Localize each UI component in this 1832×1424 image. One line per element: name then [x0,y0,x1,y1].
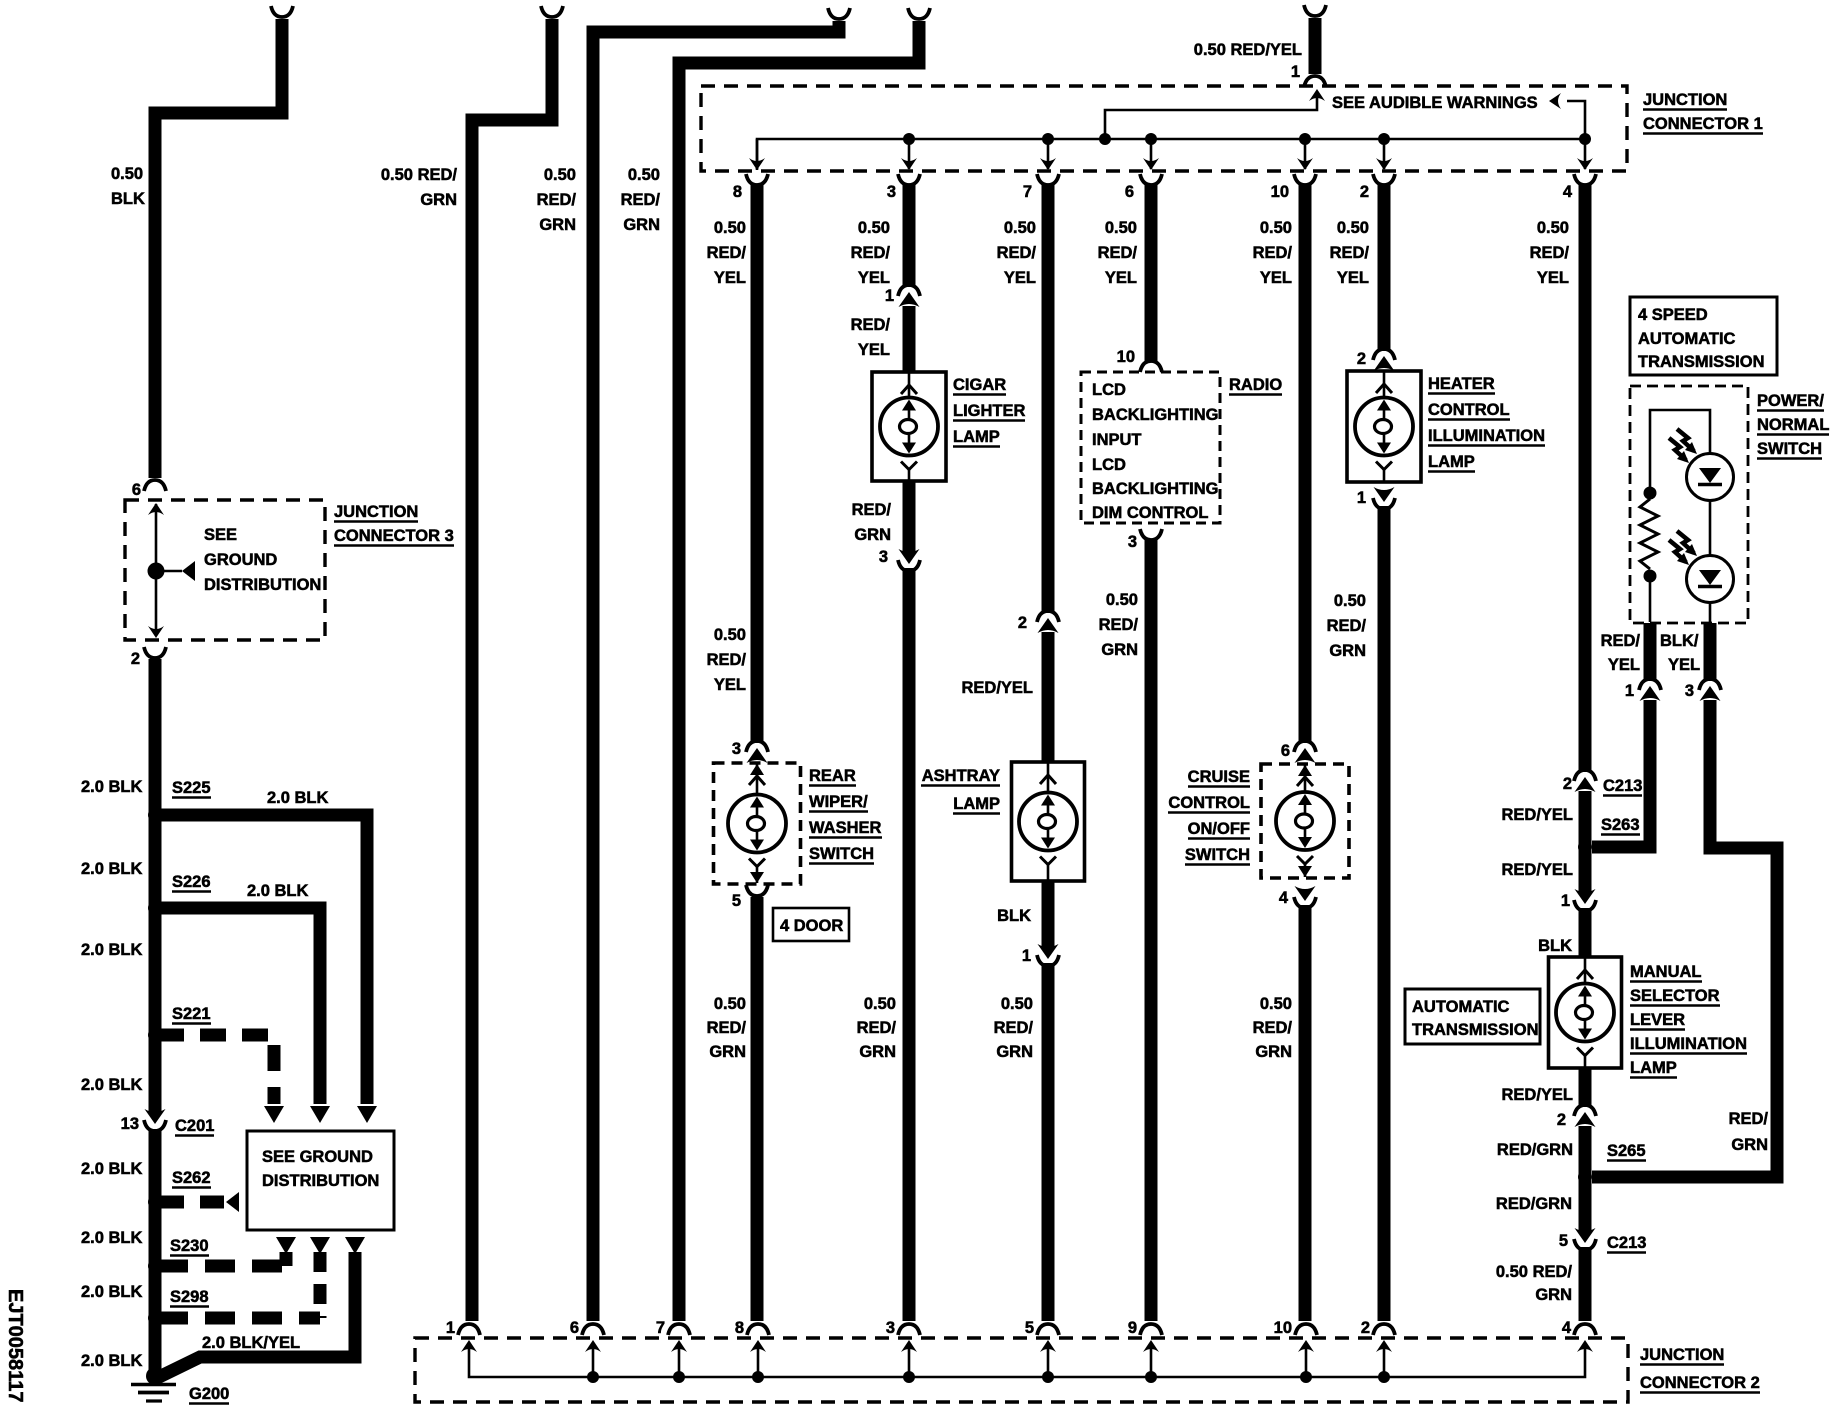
wire W11 upper (JC1 pin 4) [1563,183,1573,201]
junction connector 2 bus [469,1348,1585,1377]
label BLK (W7) [997,907,1031,925]
junction connector 2 pin 10 wire end [1274,1319,1292,1337]
wire W11 lower [1579,1247,1592,1321]
svg-text:3: 3 [1685,682,1694,700]
connector pin 1 power switch [1625,682,1634,700]
svg-text:ILLUMINATION: ILLUMINATION [1428,427,1545,445]
wire W7 lower [1042,963,1055,1321]
svg-text:2.0 BLK: 2.0 BLK [81,860,143,878]
svg-text:3: 3 [887,183,896,201]
label 2.0 BLK (6) [81,1229,143,1247]
svg-text:GRN: GRN [996,1043,1033,1061]
label JUNCTION CONNECTOR 1 [1643,91,1727,110]
svg-text:LAMP: LAMP [953,428,1000,446]
svg-text:YEL: YEL [714,269,746,287]
label BLK (selector) [1538,937,1572,955]
svg-text:RED/: RED/ [851,244,891,262]
svg-text:2.0 BLK: 2.0 BLK [247,882,309,900]
label ASHTRAY LAMP [921,767,1000,786]
svg-text:C201: C201 [175,1117,214,1135]
label LCD BACKLIGHTING INPUT LCD BACKLIGHTING DIM CONTROL [1092,381,1126,399]
svg-text:YEL: YEL [1260,269,1292,287]
svg-text:5: 5 [1559,1232,1568,1250]
wire W11 into selector lamp [1579,908,1592,958]
svg-text:CONTROL: CONTROL [1428,401,1510,419]
svg-text:0.50: 0.50 [864,995,896,1013]
svg-text:YEL: YEL [1608,656,1640,674]
svg-text:0.50: 0.50 [1334,592,1366,610]
svg-text:0.50: 0.50 [628,166,660,184]
cruise control on/off switch [1261,764,1349,878]
label RED/GRN (W6) [852,501,892,519]
label RED/ GRN (BLK/YEL run) [1729,1110,1769,1128]
svg-text:SWITCH: SWITCH [1757,440,1822,458]
svg-text:0.50: 0.50 [1004,219,1036,237]
svg-text:CONNECTOR 3: CONNECTOR 3 [334,527,454,545]
connector pin 4 cruise switch [1279,889,1289,907]
svg-text:DISTRIBUTION: DISTRIBUTION [204,576,321,594]
junction arrow to S298 wire [310,1237,330,1254]
svg-text:RADIO: RADIO [1229,376,1282,394]
label RED/YEL (below S263) [1501,861,1573,879]
svg-text:0.50 RED/: 0.50 RED/ [381,166,458,184]
label 0.50 RED/YEL (W6 top) [858,219,890,237]
svg-text:LAMP: LAMP [1428,453,1475,471]
svg-text:8: 8 [733,183,742,201]
svg-text:GRN: GRN [623,216,660,234]
svg-text:10: 10 [1271,183,1289,201]
svg-text:7: 7 [656,1319,665,1337]
wire W1 main ground wire upper [149,659,162,1112]
svg-text:BLK: BLK [997,907,1031,925]
wire W8 lower [1145,540,1158,1321]
label 0.50 RED/YEL (top) [1194,41,1302,59]
svg-text:GRN: GRN [1255,1043,1292,1061]
junction connector 2 pin 3 arrow [901,1340,917,1352]
junction connector 2 pin 9 wire end [1128,1319,1137,1337]
svg-text:0.50: 0.50 [1260,995,1292,1013]
junction connector 1 box [701,86,1627,171]
junction connector 1 bus [757,139,1585,170]
label 0.50 RED/YEL (W7 top) [1004,219,1036,237]
label 2.0 BLK (5) [81,1160,143,1178]
junction connector 1 pin 2 arrow [1383,139,1386,169]
label SEE GROUND DISTRIBUTION (box) [262,1148,373,1166]
svg-text:S298: S298 [170,1288,209,1306]
connector pin 2 below selector lamp [1557,1111,1566,1129]
label 0.50 RED/GRN (W5 bottom) [714,995,746,1013]
svg-text:SEE GROUND: SEE GROUND [262,1148,373,1166]
junction connector 2 pin 1 arrow [461,1340,477,1352]
wire W7 into ashtray lamp [1042,632,1055,763]
svg-text:JUNCTION: JUNCTION [334,503,418,521]
svg-text:GRN: GRN [859,1043,896,1061]
svg-text:2.0 BLK: 2.0 BLK [81,1352,143,1370]
label 2.0 BLK (7) [81,1283,143,1301]
svg-text:S265: S265 [1607,1142,1646,1160]
label SEE GROUND DISTRIBUTION (JC3) [204,526,237,544]
label JUNCTION CONNECTOR 3 [334,503,418,522]
junction arrow from S221 branch [264,1106,284,1123]
svg-text:6: 6 [570,1319,579,1337]
wire S230 dashed branch [158,1260,286,1273]
wire W11 below selector lamp [1579,1068,1592,1107]
svg-text:1: 1 [885,287,894,305]
svg-text:GROUND: GROUND [204,551,277,569]
svg-text:CONNECTOR 2: CONNECTOR 2 [1640,1374,1760,1392]
svg-text:RED/: RED/ [707,244,747,262]
label 0.50 RED/GRN (W8) [1106,591,1138,609]
svg-text:MANUAL: MANUAL [1630,963,1702,981]
junction connector 2 pin 7 arrow [671,1340,687,1352]
connector pin 3 power switch [1685,682,1694,700]
power switch left lead lower [1649,576,1652,622]
svg-text:S225: S225 [172,779,211,797]
label 2.0 BLK (S225 branch) [267,789,329,807]
connector C213 pin 2 [1563,775,1572,793]
svg-text:0.50: 0.50 [714,219,746,237]
connector pin 1 heater lamp [1357,489,1366,507]
label RED/YEL (W6) [851,316,891,334]
connector pin 2 heater lamp [1357,350,1366,368]
wire W9 lower [1299,905,1312,1321]
svg-text:2.0 BLK: 2.0 BLK [81,1160,143,1178]
svg-text:JUNCTION: JUNCTION [1643,91,1727,109]
svg-text:2.0 BLK: 2.0 BLK [81,1076,143,1094]
rear wiper/washer switch [714,763,801,884]
svg-text:GRN: GRN [420,191,457,209]
heater control illumination lamp [1347,371,1421,482]
label RED/ YEL (power) [1601,632,1641,650]
connector pin 1 (audible feed) [1291,63,1300,81]
svg-text:JUNCTION: JUNCTION [1640,1346,1724,1364]
svg-text:S221: S221 [172,1005,211,1023]
junction connector 1 pin 7 arrow [1047,139,1050,169]
svg-text:2.0 BLK: 2.0 BLK [81,1283,143,1301]
label 0.50 RED/GRN (W6 bottom) [864,995,896,1013]
svg-text:2.0 BLK: 2.0 BLK [81,1229,143,1247]
splice S225 [148,808,162,822]
label 0.50 RED/YEL (W5 top) [714,219,746,237]
junction connector 1 pin 4 arrow [1584,139,1587,169]
node dot above resistor [1644,487,1657,500]
see ground distribution stub [156,570,182,573]
svg-text:GRN: GRN [709,1043,746,1061]
svg-text:0.50: 0.50 [1001,995,1033,1013]
svg-text:RED/: RED/ [1327,617,1367,635]
svg-text:S263: S263 [1601,816,1640,834]
splice S226 [148,901,162,915]
junction connector 2 pin 5 arrow [1040,1340,1056,1352]
connector pin 3 rear wiper switch [732,740,741,758]
svg-text:RED/: RED/ [1330,244,1370,262]
svg-text:7: 7 [1023,183,1032,201]
svg-text:2.0 BLK: 2.0 BLK [267,789,329,807]
svg-text:0.50: 0.50 [714,626,746,644]
connector pin 5 rear wiper switch [732,892,741,910]
junction arrow to S230 wire [276,1237,296,1254]
svg-text:RED/YEL: RED/YEL [1501,806,1573,824]
wire S225 branch 2.0 BLK [158,815,367,1104]
svg-text:RED/: RED/ [1098,244,1138,262]
svg-text:YEL: YEL [858,341,890,359]
svg-text:6: 6 [1281,742,1290,760]
junction connector 2 pin 2 arrow [1376,1340,1392,1352]
wire RED/YEL stub below power switch [1644,623,1657,681]
connector pin 2 ashtray [1018,614,1027,632]
junction connector 2 pin 6 arrow [585,1340,601,1352]
svg-text:REAR: REAR [809,767,856,785]
label REAR WIPER/ WASHER SWITCH [809,767,856,786]
wire W1 main ground wire lower [149,1129,162,1372]
svg-text:YEL: YEL [1668,656,1700,674]
svg-text:RED/: RED/ [1253,244,1293,262]
svg-text:S230: S230 [170,1237,209,1255]
svg-text:2: 2 [1357,350,1366,368]
svg-text:CIGAR: CIGAR [953,376,1006,394]
svg-text:YEL: YEL [1004,269,1036,287]
svg-text:2: 2 [1557,1111,1566,1129]
label 0.50 RED/GRN (W10) [1334,592,1366,610]
splice S221 [148,1028,162,1042]
svg-text:4 DOOR: 4 DOOR [780,917,843,935]
node dot below resistor [1644,570,1657,583]
svg-text:RED/: RED/ [997,244,1037,262]
svg-text:ASHTRAY: ASHTRAY [922,767,1000,785]
svg-text:WIPER/: WIPER/ [809,793,868,811]
label CIGAR LIGHTER LAMP [953,376,1006,395]
svg-text:LAMP: LAMP [953,795,1000,813]
svg-text:RED/: RED/ [707,651,747,669]
svg-text:GRN: GRN [1101,641,1138,659]
svg-text:RED/: RED/ [1729,1110,1769,1128]
junction connector 2 box [415,1338,1628,1402]
label MANUAL SELECTOR LEVER ILLUMINATION LAMP [1630,963,1702,982]
label 0.50 RED/GRN (W2) [381,166,458,184]
svg-text:C213: C213 [1607,1234,1646,1252]
splice S230 [148,1259,162,1273]
connector pin 1 cigar lighter [885,287,894,305]
wire W8 upper (JC1 pin 6) [1125,183,1134,201]
svg-text:LIGHTER: LIGHTER [953,402,1025,420]
svg-text:RED/YEL: RED/YEL [1501,861,1573,879]
connector pin 6 cruise switch [1281,742,1290,760]
svg-text:RED/: RED/ [851,316,891,334]
svg-text:RED/: RED/ [537,191,577,209]
svg-text:SEE AUDIBLE WARNINGS: SEE AUDIBLE WARNINGS [1332,94,1538,112]
svg-text:RED/YEL: RED/YEL [961,679,1033,697]
wire W1 0.50 BLK top hook [271,6,293,17]
wire RED/YEL from power switch to S263 [1592,700,1650,847]
svg-text:BLK: BLK [111,190,145,208]
label 0.50 RED/YEL (W8 top) [1105,219,1137,237]
wire W6 below cigar lamp [903,481,916,552]
junction connector 3 internal lead [155,504,158,636]
connector C213 pin 5 [1559,1232,1568,1250]
label 0.50 RED/YEL (W5 mid) [714,626,746,644]
label 2.0 BLK (8) [81,1352,143,1370]
junction connector 2 pin 1 wire end [446,1319,455,1337]
wire W6 upper (JC1 pin 3) [887,183,896,201]
junction connector 3 node dot [148,563,165,580]
svg-text:NORMAL: NORMAL [1757,416,1829,434]
wire 0.50 RED/YEL audible warnings feed [1304,5,1326,16]
svg-text:YEL: YEL [1537,269,1569,287]
svg-text:C213: C213 [1603,777,1642,795]
wire W6 lower [903,568,916,1321]
svg-text:8: 8 [735,1319,744,1337]
label 0.50 RED/GRN (W11 bottom) [1496,1263,1573,1281]
power switch right lead lower [1709,602,1712,622]
wire W2 0.50 RED/GRN [541,6,563,17]
junction connector 2 pin 10 arrow [1298,1340,1314,1352]
svg-text:RED/GRN: RED/GRN [1496,1195,1572,1213]
junction arrow from S225 branch [357,1106,377,1123]
svg-text:RED/: RED/ [707,1019,747,1037]
ground G200 dot [146,1367,164,1385]
svg-text:DIM CONTROL: DIM CONTROL [1092,504,1208,522]
svg-text:10: 10 [1274,1319,1292,1337]
svg-text:LCD: LCD [1092,381,1126,399]
svg-text:2.0 BLK: 2.0 BLK [81,941,143,959]
label 2.0 BLK (S226 branch) [247,882,309,900]
svg-text:4: 4 [1562,1319,1572,1337]
label 0.50 RED/GRN (W9 bottom) [1260,995,1292,1013]
label 2.0 BLK (4) [81,1076,143,1094]
connector pin 2 out of junction connector 3 [131,650,140,668]
svg-text:RED/: RED/ [852,501,892,519]
label 0.50 RED/GRN (W7 bottom) [1001,995,1033,1013]
label 0.50 RED/YEL (W10 top) [1337,219,1369,237]
connector pin 3 radio [1128,533,1137,551]
label RED/YEL (above S263) [1501,806,1573,824]
svg-text:9: 9 [1128,1319,1137,1337]
wire W9 upper (JC1 pin 10) [1271,183,1289,201]
svg-text:0.50: 0.50 [1106,591,1138,609]
label 0.50 RED/YEL (W9 top) [1260,219,1292,237]
svg-text:YEL: YEL [1337,269,1369,287]
svg-text:YEL: YEL [858,269,890,287]
svg-text:SELECTOR: SELECTOR [1630,987,1720,1005]
power/normal switch box [1630,386,1748,623]
svg-text:0.50: 0.50 [111,165,143,183]
wire W11 to S265 [1579,1126,1592,1231]
svg-text:TRANSMISSION: TRANSMISSION [1412,1021,1539,1039]
connector pin 1 selector lamp [1561,892,1570,910]
splice S298 [148,1311,162,1325]
svg-text:2.0 BLK: 2.0 BLK [81,778,143,796]
svg-text:6: 6 [1125,183,1134,201]
junction connector 2 pin 4 arrow [1577,1340,1593,1352]
svg-text:WASHER: WASHER [809,819,882,837]
svg-text:2: 2 [1360,183,1369,201]
junction arrow to BLK/YEL wire [345,1237,365,1254]
svg-text:CONNECTOR 1: CONNECTOR 1 [1643,115,1763,133]
svg-text:0.50: 0.50 [714,995,746,1013]
wire S221 dashed branch [158,1035,274,1104]
svg-text:0.50: 0.50 [544,166,576,184]
see ground distribution box [247,1131,394,1230]
wire S298 dashed branch [158,1312,320,1325]
svg-text:BACKLIGHTING: BACKLIGHTING [1092,406,1219,424]
junction connector 1 pin 6 arrow [1150,139,1153,169]
svg-text:G200: G200 [189,1385,229,1403]
junction connector 2 pin 6 wire end [570,1319,579,1337]
svg-text:1: 1 [1625,682,1634,700]
label 2.0 BLK (2) [81,860,143,878]
svg-text:ON/OFF: ON/OFF [1188,820,1250,838]
svg-text:5: 5 [1025,1319,1034,1337]
svg-text:0.50: 0.50 [1537,219,1569,237]
audible warnings link left-arrow [1567,101,1585,139]
svg-text:INPUT: INPUT [1092,431,1142,449]
svg-text:RED/: RED/ [621,191,661,209]
wire W10 lower [1378,506,1391,1321]
svg-text:3: 3 [732,740,741,758]
svg-text:1: 1 [1561,892,1570,910]
svg-text:POWER/: POWER/ [1757,392,1824,410]
resistor R (power switch) [1640,499,1658,569]
junction connector 2 pin 2 wire end [1361,1319,1370,1337]
ground symbol [131,1383,176,1387]
label 2.0 BLK (1) [81,778,143,796]
connector pin 3 below cigar lamp [879,548,888,566]
svg-text:0.50: 0.50 [858,219,890,237]
splice S263 [1578,840,1592,854]
splice S265 [1578,1170,1592,1184]
label BLK/ YEL (power) [1660,632,1699,650]
svg-text:RED/YEL: RED/YEL [1501,1086,1573,1104]
svg-text:2: 2 [1563,775,1572,793]
label G200 [189,1385,229,1404]
label RED/GRN (below S265) [1496,1195,1572,1213]
label 0.50 BLK [111,165,143,183]
svg-text:6: 6 [132,481,141,499]
svg-text:4: 4 [1563,183,1573,201]
svg-text:2.0 BLK/YEL: 2.0 BLK/YEL [202,1334,300,1352]
svg-text:GRN: GRN [854,526,891,544]
svg-text:RED/GRN: RED/GRN [1497,1141,1573,1159]
svg-text:0.50 RED/: 0.50 RED/ [1496,1263,1573,1281]
svg-text:AUTOMATIC: AUTOMATIC [1412,998,1510,1016]
junction connector 3 box [125,500,325,640]
wire W5 upper (JC1 pin 8) [733,183,742,201]
4 DOOR box [773,908,849,941]
wire W5 lower [751,897,764,1321]
wire W10 upper (JC1 pin 2) [1360,183,1369,201]
svg-text:SWITCH: SWITCH [809,845,874,863]
svg-text:3: 3 [1128,533,1137,551]
wire BLK/YEL from power switch to S265 [1592,700,1777,1177]
svg-text:CRUISE: CRUISE [1188,768,1250,786]
svg-text:1: 1 [1357,489,1366,507]
junction connector 1 pin 3 arrow [908,139,911,169]
svg-text:AUTOMATIC: AUTOMATIC [1638,330,1736,348]
svg-text:LCD: LCD [1092,456,1126,474]
svg-text:GRN: GRN [1535,1286,1572,1304]
svg-text:3: 3 [879,548,888,566]
svg-text:EJT0058117: EJT0058117 [4,1289,26,1402]
label RADIO [1229,376,1282,395]
wire S262 dashed stub [158,1196,224,1209]
junction connector 2 pin 3 wire end [886,1319,895,1337]
wire BLK/YEL stub below power switch [1704,623,1717,681]
LED link [1709,500,1712,555]
label HEATER CONTROL ILLUMINATION LAMP [1428,375,1495,394]
svg-text:S226: S226 [172,873,211,891]
wire W11 to S263 [1579,791,1592,892]
svg-text:TRANSMISSION: TRANSMISSION [1638,353,1765,371]
